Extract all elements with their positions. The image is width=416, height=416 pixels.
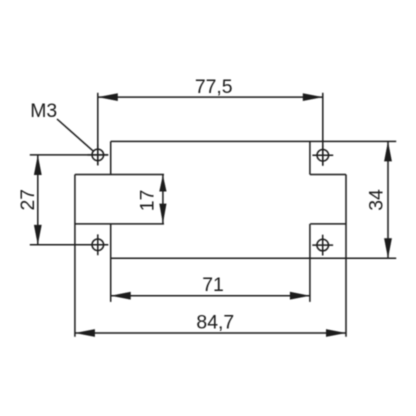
svg-text:77,5: 77,5	[195, 76, 233, 98]
arrowhead 34 down	[384, 238, 392, 258]
cutout bottom edge with 34-dim extension	[111, 257, 397, 259]
arrowhead 34 up	[384, 141, 392, 161]
hole bottom-left circle	[92, 239, 104, 251]
band left edge with 84,7-dim extension	[74, 175, 76, 337]
hole bottom-left crosshair	[87, 244, 108, 246]
band right edge with 84,7-dim extension	[345, 175, 347, 337]
hole top-left crosshair	[87, 154, 108, 156]
leader line M3	[57, 119, 94, 151]
arrowhead 84,7 right	[326, 329, 346, 337]
cutout left vertical upper segment	[110, 141, 112, 174]
dimension 84,7 line	[75, 332, 346, 334]
right tab top edge	[310, 174, 346, 176]
arrowhead 71 right	[290, 292, 310, 300]
hole bottom-right circle	[317, 239, 329, 251]
cutout right vertical upper segment	[309, 141, 311, 174]
arrowhead 17 up	[159, 175, 166, 192]
svg-text:17: 17	[136, 190, 158, 212]
dimension 27 top extension	[30, 154, 108, 156]
dimension 77,5 left extension	[97, 93, 99, 166]
hole top-right crosshair	[312, 154, 333, 156]
cutout top edge with 34-dim extension	[111, 140, 397, 142]
dimension 27 line	[37, 155, 39, 245]
right tab bottom edge	[310, 223, 346, 225]
dimension 77,5 right extension	[322, 93, 324, 166]
hole top-right circle	[317, 150, 329, 162]
arrowhead 84,7 left	[75, 329, 95, 337]
dimension 71 line	[111, 295, 310, 297]
hole bottom-right crosshair	[312, 244, 333, 246]
svg-text:27: 27	[17, 189, 39, 211]
hole top-left circle	[92, 149, 104, 161]
arrowhead 27 down	[34, 225, 42, 245]
svg-text:84,7: 84,7	[196, 312, 234, 334]
dimension 77,5 line	[98, 96, 323, 98]
arrowhead 27 up	[34, 155, 42, 175]
cutout left vertical lower segment with 71-dim extension	[110, 224, 112, 302]
svg-text:71: 71	[202, 274, 224, 296]
arrowhead 77,5 left	[98, 93, 118, 101]
cutout right vertical lower segment with 71-dim extension	[309, 224, 311, 302]
arrowhead 77,5 right	[303, 93, 323, 101]
svg-text:M3: M3	[30, 100, 57, 122]
left tab top edge with 17-dim extension	[75, 174, 164, 176]
left tab bottom edge with 17-dim extension	[75, 223, 164, 225]
dimension 34 line	[387, 141, 389, 258]
arrowhead 71 left	[111, 292, 131, 300]
svg-text:34: 34	[365, 189, 387, 211]
arrowhead 17 down	[159, 204, 166, 224]
dimension 17 line	[162, 175, 164, 224]
dimension 27 bottom extension	[30, 244, 108, 246]
